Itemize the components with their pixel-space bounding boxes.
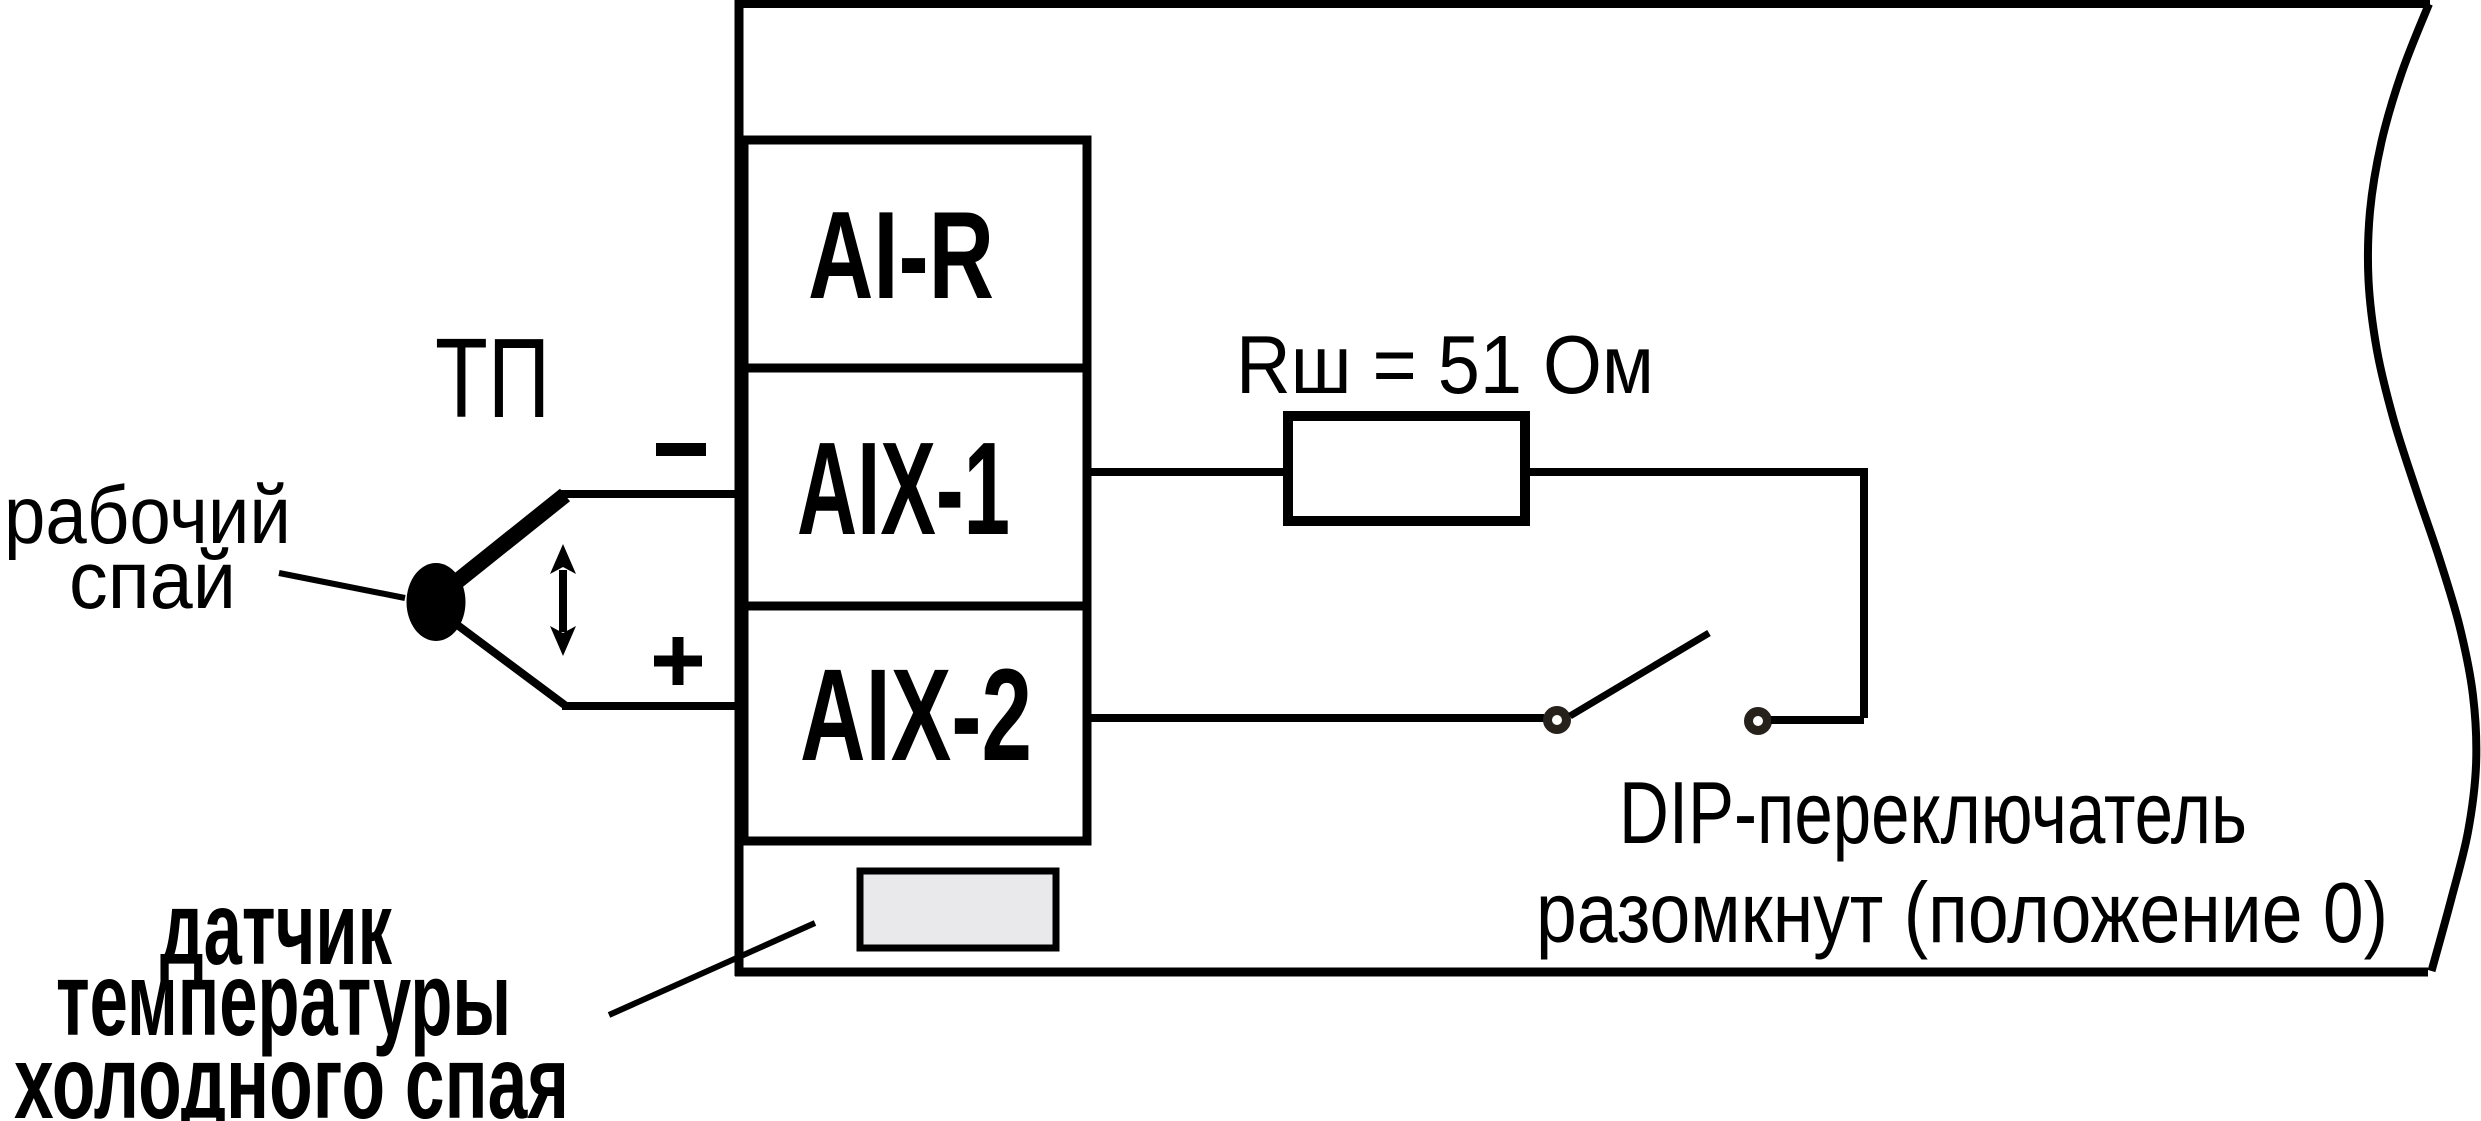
DIP switch left contact [1548,711,1567,730]
svg-text:разомкнут (положение 0): разомкнут (положение 0) [1536,866,2388,961]
device outer box wavy right edge [2368,4,2476,971]
svg-text:ТП: ТП [435,315,550,441]
leader line from "рабочий спай" to junction [279,573,405,598]
device outer box bottom border [735,968,2428,977]
terminal divider AI-R / AIX-1 [744,364,1087,373]
device outer box left border [735,0,744,976]
device outer box top border [735,0,2430,8]
resistor Rsh body [1288,416,1525,521]
svg-text:Rш = 51 Ом: Rш = 51 Ом [1236,318,1654,411]
thermocouple negative lead (thick) [450,495,565,587]
terminal block outline [744,140,1087,841]
double-headed arrow between leads [550,544,576,656]
plus polarity mark [654,637,702,685]
cold junction sensor body (gray) [860,871,1056,948]
svg-text:AIX-2: AIX-2 [800,641,1032,788]
wire minus lead to AIX-1 [558,490,744,498]
wire vertical drop to switch [1860,468,1868,718]
leader line from sensor label to sensor [609,923,815,1015]
wire resistor to corner [1525,468,1864,476]
terminal divider AIX-1 / AIX-2 [744,602,1087,611]
thermocouple working junction blob [407,563,466,641]
wire AIX-2 to switch left contact [1087,714,1544,722]
thermocouple positive lead [452,621,566,706]
svg-text:AI-R: AI-R [808,187,994,325]
svg-text:AIX-1: AIX-1 [797,415,1010,562]
DIP switch lever [1570,633,1709,716]
svg-text:DIP-переключатель: DIP-переключатель [1619,763,2247,862]
svg-text:холодного спая: холодного спая [14,1025,569,1121]
wire switch right contact to vertical [1771,716,1864,724]
wire AIX-1 to resistor [1087,468,1288,476]
svg-text:спай: спай [69,535,236,626]
DIP switch right contact [1749,712,1768,731]
minus polarity mark [656,443,706,456]
wire plus lead to AIX-2 [562,702,744,710]
